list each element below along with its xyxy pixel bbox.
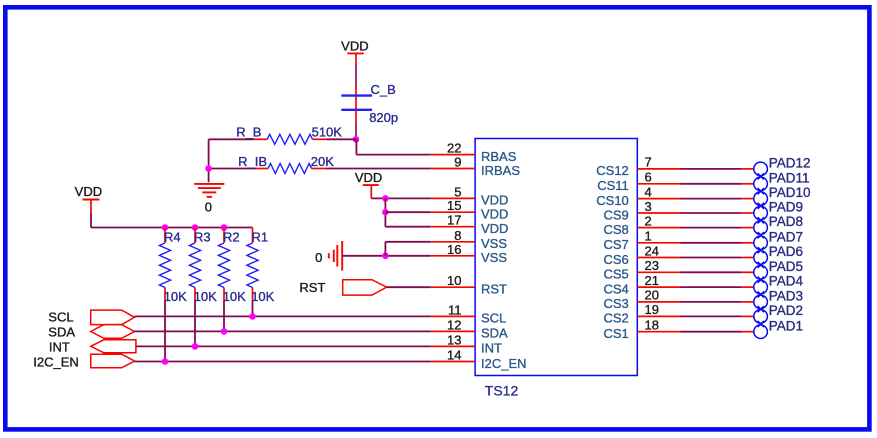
- svg-text:PAD5: PAD5: [769, 259, 803, 274]
- svg-text:20: 20: [645, 288, 659, 303]
- svg-text:5: 5: [454, 184, 461, 199]
- svg-text:12: 12: [447, 317, 461, 332]
- svg-text:CS2: CS2: [604, 311, 629, 326]
- svg-text:0: 0: [205, 199, 212, 214]
- svg-text:VDD: VDD: [75, 184, 102, 199]
- svg-text:22: 22: [447, 141, 461, 156]
- svg-text:1: 1: [645, 229, 652, 244]
- svg-text:VDD: VDD: [355, 170, 382, 185]
- svg-text:10K: 10K: [164, 289, 187, 304]
- svg-text:PAD12: PAD12: [769, 156, 811, 171]
- svg-text:R_IB: R_IB: [238, 154, 267, 169]
- svg-text:10K: 10K: [223, 289, 246, 304]
- svg-text:CS10: CS10: [596, 193, 629, 208]
- svg-text:SDA: SDA: [481, 326, 508, 341]
- svg-text:510K: 510K: [312, 125, 343, 140]
- svg-text:TS12: TS12: [485, 382, 519, 398]
- svg-text:19: 19: [645, 302, 659, 317]
- svg-text:R4: R4: [164, 230, 181, 245]
- svg-text:14: 14: [447, 348, 461, 363]
- svg-text:PAD10: PAD10: [769, 185, 811, 200]
- svg-text:C_B: C_B: [371, 82, 396, 97]
- svg-text:VDD: VDD: [481, 207, 508, 222]
- svg-text:VSS: VSS: [481, 236, 507, 251]
- svg-text:2: 2: [645, 213, 652, 228]
- svg-text:4: 4: [645, 184, 652, 199]
- svg-text:PAD11: PAD11: [769, 170, 810, 185]
- svg-text:I2C_EN: I2C_EN: [33, 355, 79, 370]
- svg-text:CS6: CS6: [604, 252, 629, 267]
- svg-text:10: 10: [447, 273, 461, 288]
- svg-text:SCL: SCL: [481, 311, 506, 326]
- svg-text:CS5: CS5: [604, 267, 629, 282]
- svg-text:13: 13: [447, 332, 461, 347]
- svg-text:CS3: CS3: [604, 296, 629, 311]
- svg-text:CS12: CS12: [596, 163, 629, 178]
- svg-text:CS1: CS1: [604, 326, 629, 341]
- svg-text:10K: 10K: [194, 289, 217, 304]
- svg-text:RBAS: RBAS: [481, 149, 517, 164]
- svg-text:20K: 20K: [311, 154, 334, 169]
- svg-text:21: 21: [645, 273, 659, 288]
- svg-text:I2C_EN: I2C_EN: [481, 356, 527, 371]
- svg-text:PAD9: PAD9: [769, 200, 803, 215]
- svg-text:17: 17: [447, 213, 461, 228]
- svg-text:CS11: CS11: [597, 178, 629, 193]
- svg-text:8: 8: [454, 228, 461, 243]
- svg-text:CS8: CS8: [604, 222, 629, 237]
- svg-text:IRBAS: IRBAS: [481, 163, 520, 178]
- svg-text:PAD6: PAD6: [769, 244, 803, 259]
- svg-text:R2: R2: [223, 230, 240, 245]
- svg-text:R_B: R_B: [236, 125, 261, 140]
- svg-text:PAD1: PAD1: [769, 318, 803, 333]
- svg-text:VDD: VDD: [481, 221, 508, 236]
- svg-text:INT: INT: [49, 339, 70, 354]
- svg-text:9: 9: [454, 155, 461, 170]
- svg-text:16: 16: [447, 242, 461, 257]
- svg-text:R1: R1: [252, 230, 269, 245]
- svg-text:3: 3: [645, 199, 652, 214]
- svg-text:PAD7: PAD7: [769, 229, 803, 244]
- svg-text:6: 6: [645, 170, 652, 185]
- svg-text:CS9: CS9: [604, 207, 629, 222]
- svg-text:10K: 10K: [251, 289, 274, 304]
- svg-text:820p: 820p: [369, 110, 398, 125]
- svg-text:23: 23: [645, 258, 659, 273]
- svg-text:RST: RST: [299, 280, 325, 295]
- svg-text:7: 7: [645, 155, 652, 170]
- svg-text:INT: INT: [481, 341, 502, 356]
- svg-text:VDD: VDD: [481, 193, 508, 208]
- svg-text:SCL: SCL: [48, 309, 73, 324]
- svg-text:24: 24: [645, 243, 659, 258]
- svg-text:SDA: SDA: [48, 324, 75, 339]
- svg-text:PAD8: PAD8: [769, 214, 803, 229]
- svg-text:PAD3: PAD3: [769, 289, 803, 304]
- svg-text:RST: RST: [481, 282, 507, 297]
- svg-text:CS4: CS4: [604, 281, 629, 296]
- svg-text:CS7: CS7: [604, 237, 629, 252]
- svg-text:PAD4: PAD4: [769, 274, 804, 289]
- svg-text:18: 18: [645, 318, 659, 333]
- svg-text:0: 0: [315, 250, 322, 265]
- svg-text:VDD: VDD: [341, 39, 368, 54]
- svg-text:PAD2: PAD2: [769, 303, 803, 318]
- svg-text:11: 11: [448, 302, 462, 317]
- svg-text:R3: R3: [194, 230, 211, 245]
- svg-text:VSS: VSS: [481, 250, 507, 265]
- svg-text:15: 15: [447, 198, 461, 213]
